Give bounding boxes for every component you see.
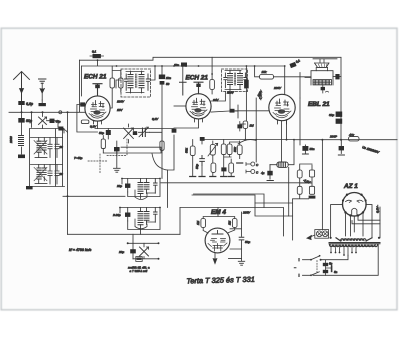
svg-text:200P: 200P xyxy=(329,135,337,139)
wire choke to lower bus xyxy=(288,167,290,216)
ground osc blob column xyxy=(116,151,118,168)
svg-text:50p: 50p xyxy=(195,164,199,169)
svg-text:EM 4: EM 4 xyxy=(211,209,226,216)
resistor grid tube1 xyxy=(110,78,114,88)
wire bottom bus xyxy=(68,233,181,235)
IF1 top bars xyxy=(126,72,144,93)
capacitor 0,1 EBL xyxy=(289,62,296,68)
IF2 tuning cap secondary xyxy=(244,73,247,88)
wire HT right rail xyxy=(379,207,381,238)
resistor 1M left EM4 xyxy=(201,219,206,228)
capacitor 6.8p antenna xyxy=(18,101,24,105)
arrow to dial lamps xyxy=(308,235,315,238)
wire det line xyxy=(202,140,294,145)
wire EM4 feed xyxy=(194,194,265,208)
svg-text:32µ: 32µ xyxy=(329,113,334,117)
trimmer capacitor osc xyxy=(124,124,134,143)
svg-text:285V: 285V xyxy=(242,211,251,215)
choke EBL cathode xyxy=(270,140,294,167)
capacitor 10n det2 xyxy=(136,257,142,262)
resistor tone a xyxy=(221,144,226,155)
wire mains bottom xyxy=(313,244,378,275)
svg-text:5n: 5n xyxy=(334,270,338,274)
capacitor 50u lower xyxy=(221,167,226,171)
mains switch pole 2 xyxy=(299,272,319,277)
svg-text:20p: 20p xyxy=(116,184,122,188)
svg-text:30: 30 xyxy=(60,172,64,176)
wire tube1 right stubs xyxy=(110,66,121,108)
wire grid line left xyxy=(9,111,85,113)
bleeder cap upper xyxy=(309,170,314,177)
svg-text:0,9V: 0,9V xyxy=(152,117,159,121)
pilot lamp 2 xyxy=(322,231,328,237)
wire mid box xyxy=(255,202,293,204)
capacitor 20u det2 xyxy=(130,249,136,253)
capacitor 50p antenna xyxy=(18,118,24,123)
svg-text:4µ: 4µ xyxy=(261,171,265,175)
svg-text:50k: 50k xyxy=(185,148,189,153)
wire EBL grid line xyxy=(235,110,270,112)
trimmer band2 a xyxy=(48,165,52,185)
wire mains top xyxy=(321,255,348,260)
svg-text:2000: 2000 xyxy=(9,136,13,144)
resistor cathode tube1 xyxy=(81,120,89,124)
capacitor 5n mains upper xyxy=(323,263,328,266)
svg-text:50: 50 xyxy=(166,82,170,86)
wire tube2 to IF2 xyxy=(211,92,225,102)
wire tube2 osc grid xyxy=(174,105,186,107)
capacitor 10n pair right of IF1 xyxy=(159,66,172,177)
svg-text:50k: 50k xyxy=(233,147,237,152)
capacitor 45p input xyxy=(50,119,55,123)
tube AZ1 rectifier xyxy=(342,193,367,217)
resistor lower right xyxy=(229,163,234,173)
capacitor blob padder left xyxy=(58,127,63,131)
resistor tone b xyxy=(227,144,232,155)
wires pot cluster xyxy=(193,140,240,177)
wire diode load to det line xyxy=(244,129,246,140)
trimmer band2 b 30 xyxy=(55,165,59,185)
svg-text:100V: 100V xyxy=(117,100,125,104)
wire det2 feed xyxy=(133,229,141,243)
wires AZ1 filament xyxy=(352,217,380,224)
svg-text:-7,5V: -7,5V xyxy=(259,92,263,100)
wire IF1 secondary out xyxy=(151,66,156,80)
wire EBL diode to det line xyxy=(286,121,288,140)
switch link dashed xyxy=(316,261,318,273)
capacitor 0,1u right xyxy=(339,146,344,150)
padder capacitor osc xyxy=(139,127,150,137)
svg-text:20µ: 20µ xyxy=(118,250,124,254)
trimmer caps osc1 right xyxy=(154,179,158,194)
IF2 primary coil xyxy=(228,71,233,90)
band switch frame xyxy=(30,129,65,187)
wire lower mid bus xyxy=(192,195,293,216)
svg-text:1M: 1M xyxy=(196,220,200,225)
IF transformer can 2 (dashed) xyxy=(222,69,248,92)
capacitor 50p osc xyxy=(106,130,111,135)
tube ECH21 second xyxy=(186,94,211,122)
capacitor blob tube1 grid xyxy=(80,102,85,106)
mains switch pole 1 xyxy=(299,255,321,261)
svg-text:200V: 200V xyxy=(273,86,282,90)
capacitor blob osc feed xyxy=(172,129,177,133)
wire osc mid xyxy=(103,147,162,153)
wire screen bus to power xyxy=(180,208,284,237)
electrolytic 32u upper xyxy=(336,112,343,117)
node AVC junction xyxy=(67,195,69,197)
wire tube1 cathode loop xyxy=(77,105,98,133)
pickup jacks C xyxy=(246,162,259,175)
svg-text:15k: 15k xyxy=(262,70,267,74)
ground EM4 cap xyxy=(238,261,244,265)
wire tube2 top feed xyxy=(182,66,184,82)
wire osc anode top xyxy=(150,129,163,142)
capacitor blob osc xyxy=(114,147,120,151)
capacitor 4u EBL cathode xyxy=(267,171,272,176)
svg-text:30: 30 xyxy=(60,145,64,149)
wire EBL cathode down xyxy=(281,121,283,162)
wire AZ1 anode leads xyxy=(331,205,372,238)
trimmer band1 a xyxy=(48,138,52,158)
node junctions top buses xyxy=(97,59,286,75)
resistor 50k right xyxy=(237,145,242,155)
svg-text:0,1: 0,1 xyxy=(92,50,97,54)
trimmer capacitor input xyxy=(39,112,47,128)
resistor osc anode xyxy=(160,141,164,150)
ground bars pot cluster xyxy=(190,163,243,177)
wire HT line 200P xyxy=(294,139,397,141)
loudspeaker xyxy=(313,59,337,71)
svg-text:7=40p: 7=40p xyxy=(74,156,83,160)
transformer taps xyxy=(330,248,357,257)
IF2 top bars xyxy=(225,71,241,90)
wire IF2 primary return xyxy=(229,90,231,111)
mains transformer primary winding xyxy=(330,237,381,241)
bleeder resistor upper xyxy=(297,170,302,178)
wires EM4 xyxy=(203,208,235,234)
svg-text:10n: 10n xyxy=(174,63,179,67)
svg-text:6,8p: 6,8p xyxy=(26,102,33,106)
coil T1 band1 xyxy=(31,138,63,158)
resistor 1M right EM4 xyxy=(232,219,237,228)
wire osc1 bottom xyxy=(128,182,160,197)
resistor screen tube1 xyxy=(119,78,123,88)
pilot lamp box xyxy=(315,230,329,239)
IF1 tuning cap secondary xyxy=(146,74,149,90)
osc coil assembly 2 xyxy=(119,207,161,230)
svg-text:50p: 50p xyxy=(99,131,104,135)
resistor 7k lower xyxy=(211,163,216,172)
mains transformer core xyxy=(329,243,380,244)
IF1 secondary coil xyxy=(139,71,144,93)
capacitor 50n screen xyxy=(302,146,308,151)
wire osc verticals xyxy=(162,135,174,208)
output transformer xyxy=(305,71,341,85)
capacitor blob osc mixer xyxy=(133,131,137,135)
svg-text:50n: 50n xyxy=(310,147,315,151)
osc coil assembly 1 xyxy=(121,178,161,200)
wire screen drop EBL xyxy=(299,98,301,145)
svg-text:10n: 10n xyxy=(166,76,171,80)
bleeder cap lower electrolytic xyxy=(309,186,314,194)
ground blob band switch xyxy=(26,186,33,189)
wire IF1 to tube1 xyxy=(116,80,121,88)
tube EBL21 xyxy=(269,94,295,124)
capacitor 5n mains lower xyxy=(323,270,328,273)
svg-text:ECH 21: ECH 21 xyxy=(84,74,107,81)
terminal ring grid line xyxy=(59,111,62,114)
IF2 secondary coil xyxy=(238,71,243,90)
wire avc curve xyxy=(152,154,168,171)
resistor osc grid xyxy=(101,139,105,149)
wire IF2 secondary to diode xyxy=(245,66,247,121)
capacitor EM4 right xyxy=(239,237,244,240)
svg-text:2-20p: 2-20p xyxy=(112,213,121,217)
svg-text:50µ: 50µ xyxy=(245,240,250,244)
capacitor 50p det xyxy=(200,156,205,166)
wire antenna to grid line xyxy=(21,105,23,118)
wire osc vertical right xyxy=(179,208,181,235)
grid cap tube2 xyxy=(194,82,203,94)
wire HT left vertical xyxy=(321,140,323,230)
svg-text:AZ 1: AZ 1 xyxy=(343,183,358,190)
IF2 core xyxy=(234,73,235,85)
wire AVC vertical xyxy=(255,98,257,162)
capacitor 20p osc1 xyxy=(125,184,130,188)
wire det2 bottom xyxy=(133,258,159,260)
bleeder resistor lower xyxy=(297,186,302,194)
svg-text:5n: 5n xyxy=(329,262,333,266)
ground blob antenna coil xyxy=(18,155,25,159)
capacitor across output xyxy=(335,74,339,79)
wire HT vertical right xyxy=(340,58,342,140)
tube EM4 magic eye xyxy=(205,228,230,263)
capacitor blob det left xyxy=(237,124,242,128)
trimmer band1 b 30 xyxy=(55,138,59,158)
tube ECH21 first xyxy=(85,96,110,124)
node det junctions xyxy=(245,139,343,141)
wires bleeder xyxy=(293,164,312,199)
coil T2 band2 xyxy=(31,165,63,184)
wire tube1 top box left xyxy=(81,66,83,96)
gang dashed link xyxy=(88,139,127,174)
pilot lamp 1 xyxy=(316,231,322,237)
wire 15k leads xyxy=(255,66,311,77)
resistor 47k xyxy=(349,137,360,141)
wire left AVC horizontal xyxy=(63,195,125,197)
svg-text:1M: 1M xyxy=(250,124,255,128)
wire bleeder drop xyxy=(292,199,294,240)
wire osc line tube1 xyxy=(95,128,174,130)
wire tube1 cathode down xyxy=(97,121,99,128)
resistor 50k det xyxy=(190,146,195,156)
wire to antenna coil xyxy=(21,123,23,135)
IF transformer can 1 (dashed) xyxy=(121,69,151,97)
capacitor 82p tube2 right xyxy=(230,109,235,113)
resistor 15k xyxy=(260,75,274,80)
wire EBL screen feed xyxy=(299,73,301,99)
mains transformer secondary winding xyxy=(330,245,378,247)
electrolytic 32u lower xyxy=(336,119,343,124)
svg-text:47k: 47k xyxy=(349,133,354,137)
earth terminal E xyxy=(39,79,46,106)
antenna A1 xyxy=(14,72,30,102)
svg-text:kf = 4788 kc/s: kf = 4788 kc/s xyxy=(69,248,91,252)
resistor diode load xyxy=(243,121,248,129)
capacitor 0,1 top bus xyxy=(90,50,104,59)
svg-text:1M: 1M xyxy=(228,220,232,225)
grid cap tube1 xyxy=(93,84,102,96)
second detector transformer xyxy=(127,242,160,258)
wire tube2 cathode xyxy=(174,119,199,128)
IF2 tuning cap primary xyxy=(224,73,227,88)
wire second top bus xyxy=(82,60,286,66)
svg-text:a T 325-h nél: a T 325-h nél xyxy=(130,269,148,273)
wire volume bus xyxy=(161,182,311,184)
svg-text:6,3V~: 6,3V~ xyxy=(376,205,380,213)
IF1 core xyxy=(136,74,137,88)
svg-text:0,8V: 0,8V xyxy=(90,125,97,129)
capacitor blob det xyxy=(200,137,205,141)
capacitor 10n tube2 left xyxy=(181,63,187,67)
wire EBL anode feed xyxy=(284,66,286,95)
wire left frame vertical xyxy=(79,60,81,112)
resistor tube2 right xyxy=(210,80,215,90)
capacitor n below output transformer xyxy=(321,87,325,90)
svg-text:Terta T 325 és T 331: Terta T 325 és T 331 xyxy=(186,275,255,286)
node junction dots grid line xyxy=(21,111,69,113)
wire band switch entry xyxy=(31,112,33,127)
capacitor 2-20p osc2 xyxy=(125,213,130,217)
wire osc2 bottom xyxy=(128,211,160,230)
svg-text:ECH 21: ECH 21 xyxy=(186,75,209,82)
svg-text:EBL 21: EBL 21 xyxy=(308,101,330,108)
wire AVC left vertical xyxy=(67,112,69,234)
IF1 primary coil xyxy=(128,71,133,93)
antenna coil L1 xyxy=(19,136,24,155)
wire EM4 pins right xyxy=(229,249,242,259)
wires AZ1 to transformer xyxy=(346,214,364,236)
trimmer caps osc2 right xyxy=(154,208,158,223)
wire top B+ bus xyxy=(80,57,342,60)
IF1 tuning cap primary xyxy=(125,74,128,90)
wire grid arc EBL xyxy=(238,140,256,144)
capacitor mains mid xyxy=(331,266,333,271)
potentiometer 500k volume xyxy=(208,143,218,156)
wire EM4 anode feed xyxy=(230,212,242,237)
svg-text:~: ~ xyxy=(294,266,296,270)
wire input caps xyxy=(47,121,59,128)
